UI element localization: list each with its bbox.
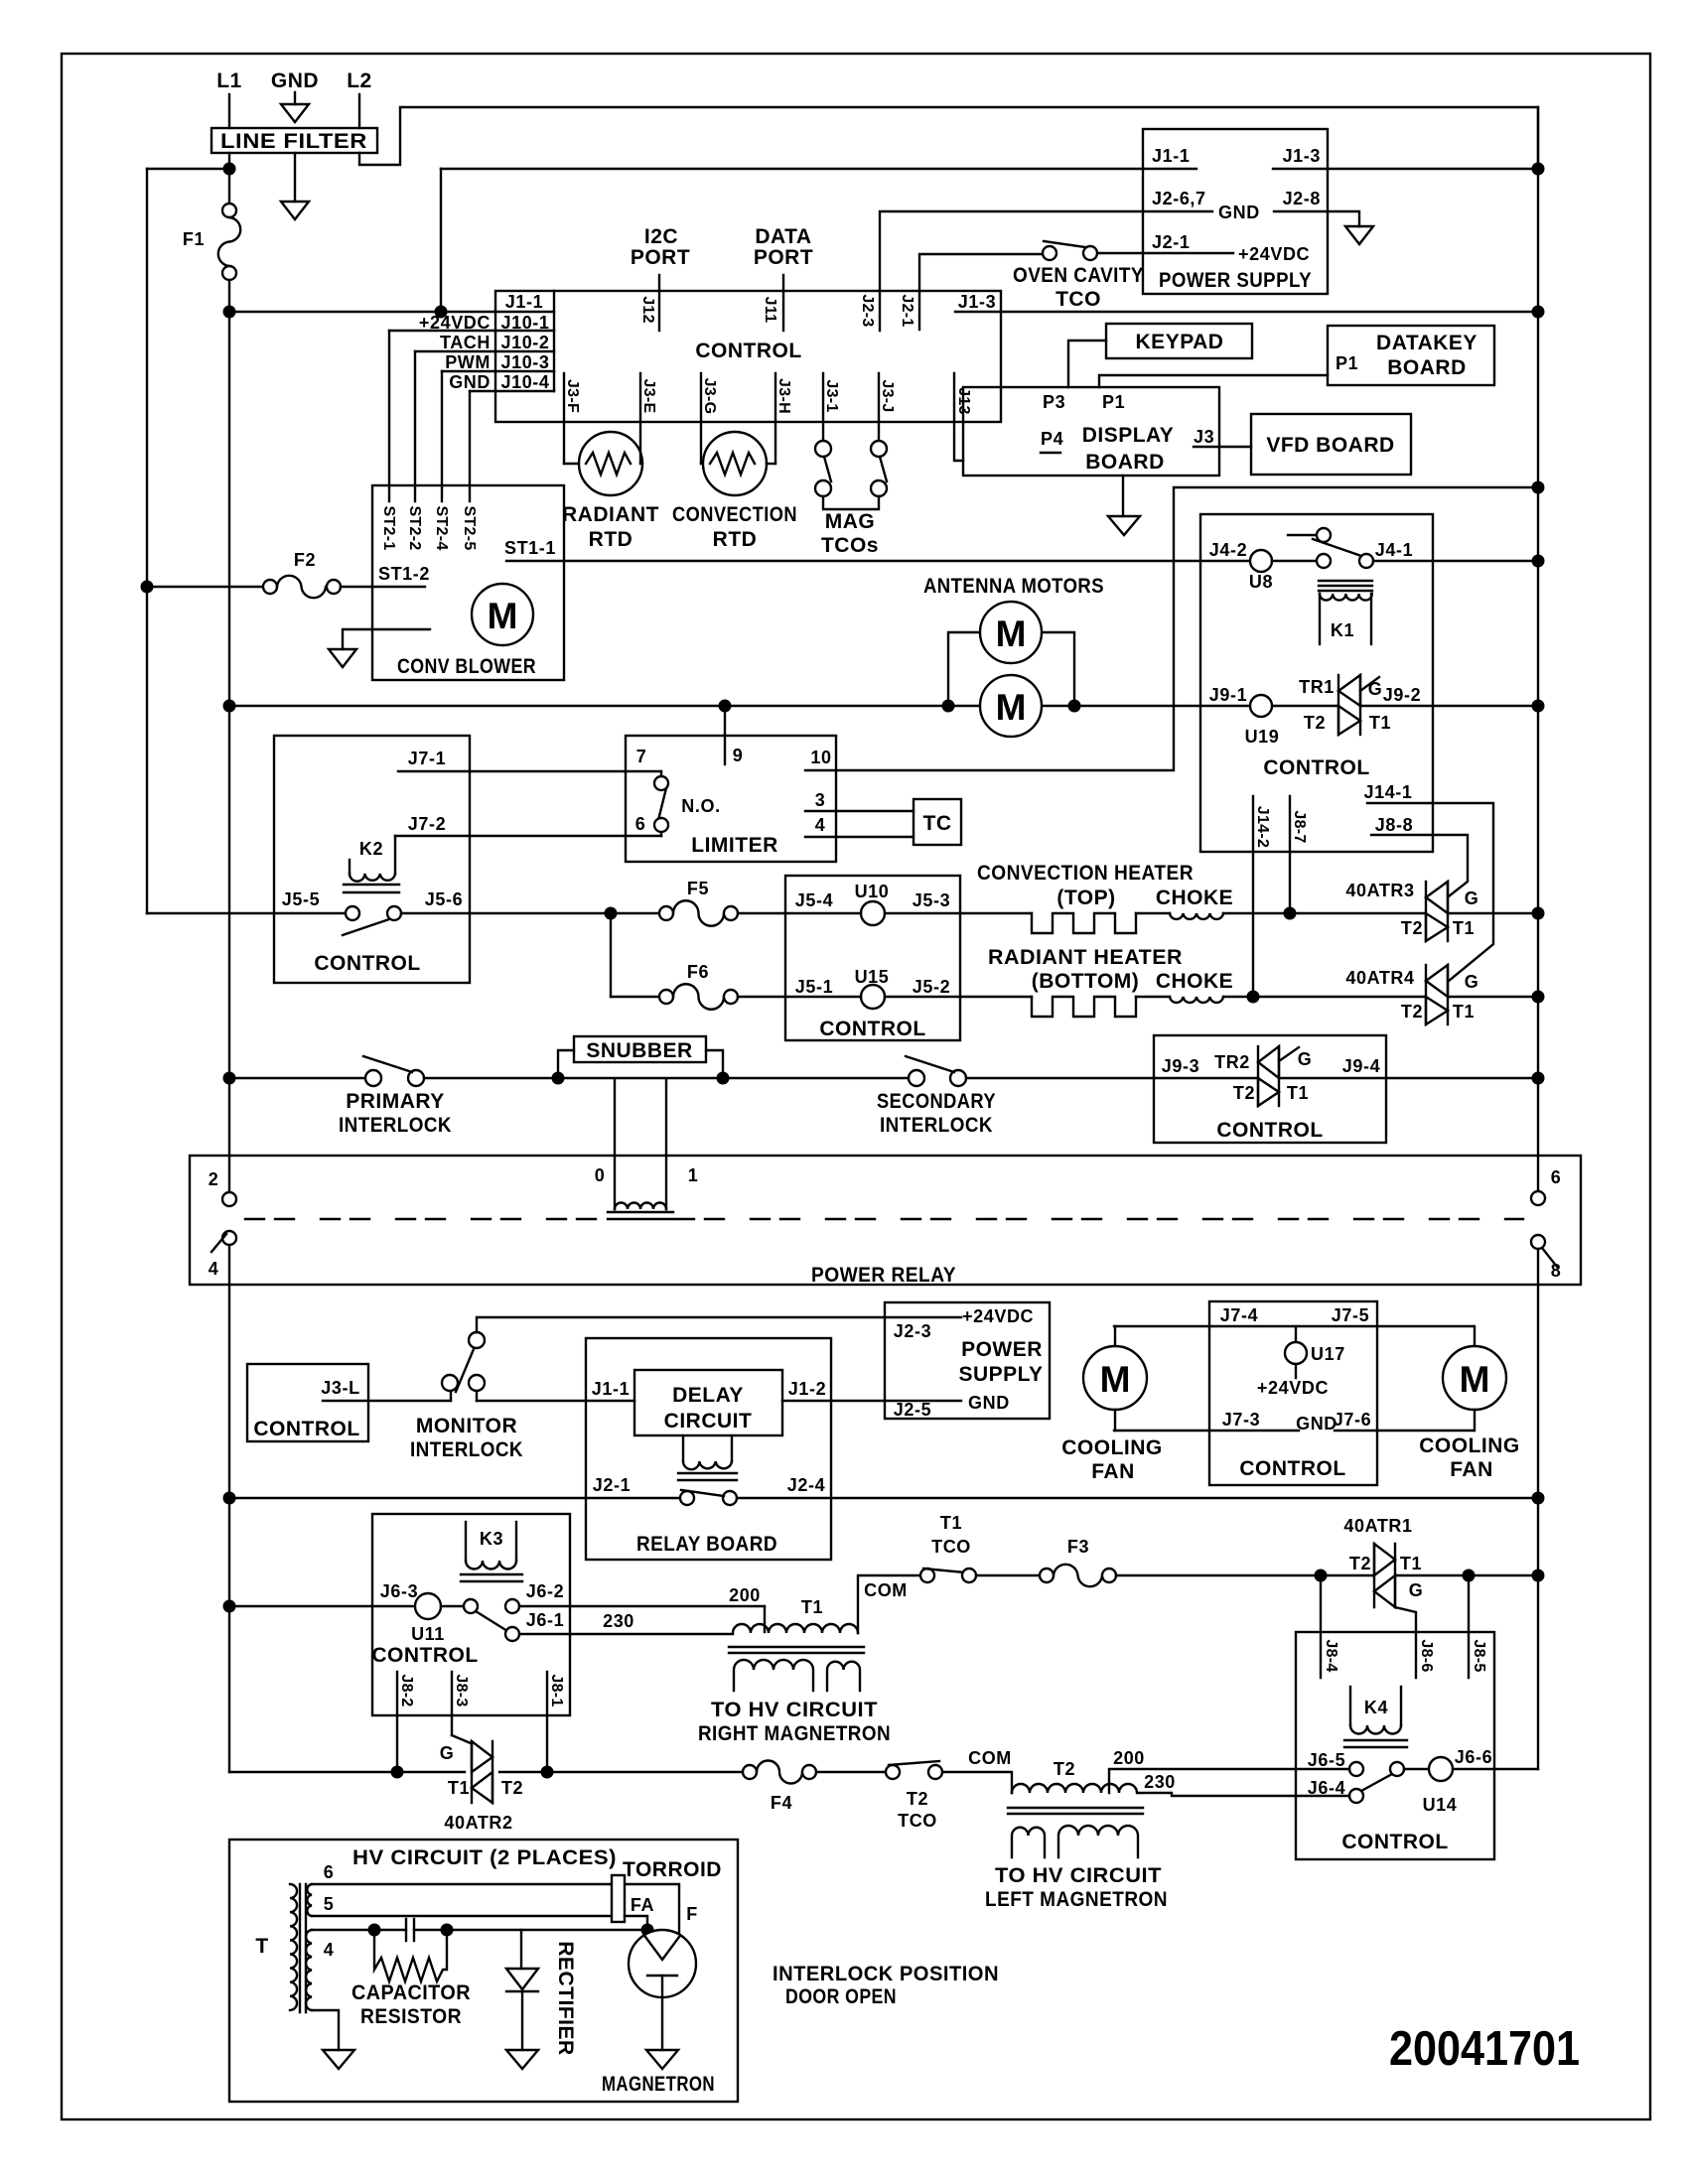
- wire T1 COM riser: [858, 1575, 920, 1633]
- fuse F1: [222, 204, 236, 217]
- wire pin 4 to TC: [805, 836, 914, 838]
- svg-text:J7-6: J7-6: [1334, 1410, 1371, 1430]
- svg-text:DELAY: DELAY: [672, 1384, 744, 1407]
- svg-text:MONITOR: MONITOR: [416, 1415, 517, 1437]
- wire J9-2 to right rail: [1360, 705, 1538, 707]
- fuse F5: [618, 912, 659, 914]
- svg-text:BOARD: BOARD: [1387, 356, 1467, 379]
- power supply board (middle): [885, 1302, 1050, 1419]
- node junction rail 40ATR1: [1532, 1570, 1545, 1582]
- svg-text:T2: T2: [907, 1789, 928, 1809]
- relay coil power relay: [614, 1079, 616, 1209]
- ground symbol transformer T: [312, 2010, 339, 2050]
- svg-text:M: M: [1460, 1359, 1490, 1400]
- svg-text:4: 4: [209, 1259, 219, 1279]
- svg-text:GND: GND: [1218, 203, 1260, 222]
- wire L2 route to top rail: [359, 107, 1538, 169]
- svg-text:J1-3: J1-3: [1283, 146, 1321, 166]
- svg-text:T1: T1: [1400, 1554, 1422, 1573]
- svg-text:CONTROL: CONTROL: [253, 1418, 359, 1440]
- svg-text:CAPACITOR: CAPACITOR: [352, 1981, 471, 2004]
- wire J7-3 row: [1114, 1430, 1299, 1432]
- pin J10-4: [442, 370, 554, 372]
- svg-text:CONVECTION: CONVECTION: [672, 503, 797, 526]
- pin J3-E: [639, 373, 641, 422]
- svg-text:J5-5: J5-5: [282, 889, 320, 909]
- node junction antenna row left: [223, 700, 236, 713]
- svg-text:T1: T1: [801, 1597, 823, 1617]
- wire J3-L to monitor interlock: [323, 1400, 451, 1402]
- svg-text:J2-5: J2-5: [894, 1400, 931, 1420]
- svg-text:SUPPLY: SUPPLY: [958, 1363, 1043, 1386]
- switch power relay right: [1531, 1191, 1545, 1205]
- svg-text:M: M: [488, 596, 518, 636]
- pin J8-7: [1289, 796, 1291, 913]
- svg-text:GND: GND: [271, 69, 319, 92]
- wire J7-6 row: [1335, 1430, 1474, 1432]
- svg-text:230: 230: [603, 1611, 634, 1631]
- pin J10-2: [389, 330, 554, 332]
- svg-text:SECONDARY: SECONDARY: [877, 1090, 996, 1113]
- svg-text:J3-F: J3-F: [564, 379, 581, 413]
- node junction FA: [641, 1924, 654, 1937]
- node junction rail conv heater: [1532, 907, 1545, 920]
- svg-text:10: 10: [810, 748, 831, 767]
- svg-text:ST1-1: ST1-1: [504, 538, 556, 558]
- U8 K1 control box: [1200, 514, 1433, 852]
- svg-text:LINE FILTER: LINE FILTER: [220, 130, 367, 153]
- svg-text:HV CIRCUIT (2 PLACES): HV CIRCUIT (2 PLACES): [352, 1846, 617, 1869]
- J3-L control box: [247, 1364, 368, 1441]
- svg-text:INTERLOCK POSITION: INTERLOCK POSITION: [773, 1963, 999, 1985]
- wire to J6-3: [229, 1605, 415, 1607]
- svg-text:DATA: DATA: [755, 225, 811, 248]
- wire U14 to rail: [1453, 1768, 1538, 1770]
- svg-text:8: 8: [1551, 1261, 1562, 1281]
- svg-text:P1: P1: [1336, 353, 1358, 373]
- wire J1-1 riser: [440, 169, 442, 312]
- svg-text:U8: U8: [1249, 572, 1273, 592]
- wire J8-4 drop: [1320, 1575, 1322, 1678]
- transformer T primary coil: [290, 1884, 297, 2010]
- wire J7-2 to limiter 6: [395, 835, 661, 837]
- wire 40ATR3 to rail: [1448, 912, 1538, 914]
- svg-text:M: M: [996, 614, 1027, 654]
- keypad board: [1106, 324, 1252, 358]
- choke coil convection: [1170, 913, 1223, 919]
- svg-text:J14-1: J14-1: [1363, 782, 1412, 802]
- svg-text:ANTENNA MOTORS: ANTENNA MOTORS: [923, 575, 1104, 598]
- wire ST2-5: [469, 391, 471, 501]
- svg-text:G: G: [1409, 1580, 1424, 1600]
- wire branch to F6: [610, 913, 612, 997]
- node junction x231 K3 row: [223, 1600, 236, 1613]
- ground symbol rectifier: [506, 2050, 538, 2069]
- svg-text:CIRCUIT: CIRCUIT: [664, 1410, 753, 1433]
- wire 40ATR1 gate to J8-6: [1395, 1607, 1416, 1678]
- svg-text:U17: U17: [1311, 1344, 1345, 1364]
- node junction +24VDC left: [223, 306, 236, 319]
- svg-text:DISPLAY: DISPLAY: [1082, 424, 1175, 447]
- svg-text:CONTROL: CONTROL: [314, 952, 420, 975]
- svg-text:T2: T2: [1349, 1554, 1371, 1573]
- svg-text:4: 4: [815, 815, 826, 835]
- svg-text:J2-4: J2-4: [787, 1475, 825, 1495]
- svg-text:(TOP): (TOP): [1056, 887, 1115, 909]
- wire F2 to ST1-2: [341, 586, 425, 588]
- pin J10-3: [415, 350, 554, 352]
- pin J8-1: [546, 1672, 548, 1772]
- wire J14-1 to 40ATR4 gate: [1367, 803, 1493, 981]
- node junction rail J4-1: [1532, 555, 1545, 568]
- svg-text:T1: T1: [1369, 713, 1391, 733]
- svg-text:P1: P1: [1102, 392, 1125, 412]
- K4 control box: [1296, 1632, 1494, 1859]
- svg-text:20041701: 20041701: [1389, 2022, 1580, 2076]
- triac 40ATR2: [471, 1741, 473, 1803]
- svg-text:J1-1: J1-1: [1152, 146, 1190, 166]
- pin J3-F: [563, 373, 565, 422]
- wire J8-3 to 40ATR2 gate: [452, 1735, 471, 1743]
- switch SECONDARY INTERLOCK: [909, 1070, 924, 1086]
- svg-text:J8-1: J8-1: [548, 1674, 565, 1706]
- svg-text:T2: T2: [1304, 713, 1326, 733]
- wire F4 to T2 TCO: [816, 1771, 886, 1773]
- node junction bridge left: [942, 700, 955, 713]
- svg-text:OVEN CAVITY: OVEN CAVITY: [1013, 264, 1144, 287]
- wire J3 to VFD: [1219, 446, 1251, 448]
- pin J2-1 wire to oven cavity TCO: [919, 254, 1043, 330]
- node junction cap left: [368, 1924, 381, 1937]
- switch OVEN CAVITY TCO: [1043, 246, 1056, 260]
- switch limiter: [654, 776, 668, 790]
- svg-text:GND: GND: [449, 372, 491, 392]
- svg-text:J3-H: J3-H: [775, 378, 792, 414]
- diode RECTIFIER: [520, 1930, 522, 1969]
- svg-text:TO HV CIRCUIT: TO HV CIRCUIT: [995, 1864, 1162, 1887]
- pin J10-1: [495, 311, 554, 313]
- svg-text:F3: F3: [1067, 1537, 1089, 1557]
- svg-text:CONTROL: CONTROL: [695, 340, 801, 362]
- svg-text:I2C: I2C: [644, 225, 678, 248]
- wire left branch: [147, 168, 229, 170]
- opto U8: [1250, 550, 1272, 572]
- svg-text:G: G: [440, 1743, 455, 1763]
- wire TCO to power supply J2-1: [1097, 252, 1233, 254]
- ground symbol J2-8: [1328, 211, 1359, 226]
- node junction J8-4: [1315, 1570, 1328, 1582]
- wire interlock to snubber: [424, 1077, 723, 1079]
- svg-text:5: 5: [324, 1894, 335, 1914]
- svg-text:J2-8: J2-8: [1283, 189, 1321, 208]
- svg-text:LIMITER: LIMITER: [691, 834, 778, 857]
- wire MAG TCO link: [823, 496, 879, 509]
- svg-text:INTERLOCK: INTERLOCK: [339, 1114, 452, 1137]
- svg-text:P3: P3: [1043, 392, 1065, 412]
- svg-text:J6-5: J6-5: [1308, 1750, 1345, 1770]
- svg-text:T2: T2: [501, 1778, 523, 1798]
- pin row bottom: [470, 390, 554, 392]
- svg-text:DATAKEY: DATAKEY: [1376, 332, 1477, 354]
- pin J8-3: [451, 1672, 453, 1735]
- wire pin 6 to magnetron F: [312, 1884, 679, 1933]
- TR2 control box: [1154, 1035, 1386, 1143]
- wire pin 10 to right control: [805, 487, 1538, 770]
- svg-text:TCO: TCO: [931, 1537, 971, 1557]
- svg-text:J4-2: J4-2: [1209, 540, 1247, 560]
- switch MAG TCO 2: [878, 422, 880, 441]
- wire J5-6 to F5 junction: [401, 912, 611, 914]
- fuse F6: [611, 996, 659, 998]
- svg-text:J3-G: J3-G: [701, 378, 718, 415]
- svg-text:J7-1: J7-1: [408, 749, 446, 768]
- svg-text:J14-2: J14-2: [1254, 806, 1271, 848]
- svg-text:N.O.: N.O.: [681, 796, 720, 816]
- svg-text:T2: T2: [1401, 1002, 1423, 1022]
- svg-text:PORT: PORT: [754, 246, 813, 269]
- wire U8 to relay contact: [1272, 560, 1317, 562]
- fuse F3: [1040, 1569, 1054, 1582]
- svg-text:J3: J3: [1194, 427, 1214, 447]
- delay circuit box: [634, 1370, 782, 1435]
- pin J3-1: [822, 373, 824, 422]
- svg-text:RIGHT MAGNETRON: RIGHT MAGNETRON: [698, 1722, 891, 1745]
- svg-text:4: 4: [324, 1940, 335, 1960]
- node junction J1-1 drop: [435, 306, 448, 319]
- svg-text:POWER SUPPLY: POWER SUPPLY: [1159, 269, 1312, 292]
- pin J13 wire to display board P4: [954, 373, 963, 461]
- svg-text:J2-3: J2-3: [894, 1321, 931, 1341]
- svg-text:K2: K2: [359, 839, 383, 859]
- wire 40ATR2 to F4: [499, 1771, 743, 1773]
- svg-text:J7-4: J7-4: [1220, 1305, 1258, 1325]
- pin J3-H: [774, 373, 776, 422]
- switch T2 TCO: [886, 1765, 900, 1779]
- svg-text:J8-8: J8-8: [1375, 815, 1413, 835]
- wire TR2 to rail: [1279, 1077, 1538, 1079]
- svg-text:T2: T2: [1054, 1759, 1075, 1779]
- pin J3-J: [878, 373, 880, 422]
- svg-text:J3-L: J3-L: [321, 1378, 359, 1398]
- wire to secondary interlock: [723, 1077, 909, 1079]
- svg-text:J1-1: J1-1: [505, 292, 543, 312]
- svg-text:CONTROL: CONTROL: [1216, 1119, 1323, 1142]
- wire delay row left: [229, 1497, 680, 1499]
- snubber S1: [558, 1050, 574, 1078]
- svg-text:POWER: POWER: [961, 1338, 1043, 1361]
- svg-text:FA: FA: [631, 1895, 654, 1915]
- wire x148 rail to K2 switch: [147, 912, 346, 914]
- opto U17: [1295, 1326, 1297, 1342]
- svg-text:TO HV CIRCUIT: TO HV CIRCUIT: [711, 1699, 878, 1721]
- svg-text:J10-2: J10-2: [500, 333, 549, 352]
- svg-text:J2-6,7: J2-6,7: [1152, 189, 1206, 208]
- svg-text:6: 6: [635, 814, 646, 834]
- wire antenna motor row: [229, 705, 1338, 707]
- relay board box: [586, 1338, 831, 1560]
- thermocouple TC: [914, 799, 961, 845]
- power relay box: [190, 1156, 1581, 1285]
- thermistor RADIANT RTD: [563, 422, 565, 464]
- transformer T secondary lower: [306, 1930, 312, 2010]
- wire J1-2 to power supply J2-5: [782, 1400, 961, 1402]
- motor M cooling fan left: [1114, 1326, 1116, 1347]
- pin J8-2: [396, 1672, 398, 1772]
- svg-text:U19: U19: [1245, 727, 1280, 747]
- svg-text:L2: L2: [347, 69, 372, 92]
- svg-text:ST2-5: ST2-5: [461, 505, 478, 550]
- line filter LF1: [211, 128, 377, 153]
- node junction right rail J1-3: [1532, 306, 1545, 319]
- svg-text:CONV BLOWER: CONV BLOWER: [397, 655, 536, 678]
- cooling fan control box: [1209, 1301, 1377, 1485]
- wire J4-1 to right rail: [1373, 560, 1538, 562]
- svg-text:G: G: [1298, 1049, 1313, 1069]
- relay coil K1: [1319, 580, 1372, 582]
- transformer T2 secondary: [1012, 1828, 1045, 1857]
- svg-text:F5: F5: [687, 879, 709, 898]
- switch MONITOR INTERLOCK: [450, 1391, 452, 1401]
- wire ST2-1: [388, 331, 390, 501]
- svg-text:0: 0: [595, 1165, 606, 1185]
- svg-text:3: 3: [815, 790, 826, 810]
- svg-text:INTERLOCK: INTERLOCK: [880, 1114, 993, 1137]
- wire F1 to +24VDC row: [228, 280, 230, 312]
- ground symbol under line filter: [294, 153, 296, 202]
- fuse F2: [141, 581, 154, 594]
- conv blower box: [372, 485, 564, 680]
- wire to power supply J1-1: [441, 168, 1143, 170]
- svg-text:F4: F4: [771, 1793, 792, 1813]
- svg-text:ST2-1: ST2-1: [380, 505, 397, 550]
- switch MAG TCO 1: [822, 422, 824, 441]
- node junction right rail top: [1532, 163, 1545, 176]
- svg-text:J9-4: J9-4: [1342, 1056, 1380, 1076]
- node junction right rail pin10: [1532, 481, 1545, 494]
- wire J5-4 row: [785, 912, 861, 914]
- wire choke to 40ATR3: [1223, 912, 1426, 914]
- wire delay row right to rail: [737, 1497, 1538, 1499]
- svg-text:230: 230: [1144, 1772, 1176, 1792]
- svg-text:RELAY BOARD: RELAY BOARD: [636, 1533, 777, 1556]
- svg-text:J11: J11: [762, 297, 778, 324]
- wire J6-2 to T1 200 tap: [519, 1605, 765, 1607]
- wire J1-3 to right rail: [1328, 168, 1538, 170]
- ground symbol magnetron: [646, 2050, 678, 2069]
- svg-text:J6-1: J6-1: [526, 1610, 564, 1630]
- svg-text:LEFT MAGNETRON: LEFT MAGNETRON: [985, 1888, 1168, 1911]
- svg-text:J8-3: J8-3: [453, 1674, 470, 1706]
- wire COM to T2 transformer: [942, 1772, 1012, 1793]
- capacitor C: [405, 1919, 407, 1941]
- control board box: [495, 291, 1001, 422]
- switch K2 contact: [346, 906, 359, 920]
- svg-text:J5-3: J5-3: [913, 890, 950, 910]
- svg-text:P4: P4: [1041, 429, 1063, 449]
- svg-text:40ATR3: 40ATR3: [1345, 881, 1414, 900]
- svg-text:J3-1: J3-1: [823, 379, 840, 412]
- pin J14-2: [1252, 796, 1254, 997]
- node junction J8-2: [391, 1766, 404, 1779]
- choke coil radiant: [1170, 997, 1223, 1003]
- svg-text:FAN: FAN: [1450, 1458, 1493, 1481]
- svg-text:SNUBBER: SNUBBER: [586, 1039, 692, 1062]
- svg-text:200: 200: [729, 1585, 761, 1605]
- ground symbol top: [294, 92, 296, 104]
- svg-text:40ATR4: 40ATR4: [1345, 968, 1414, 988]
- U10 U15 control box: [785, 876, 960, 1040]
- svg-text:TCOs: TCOs: [821, 534, 879, 557]
- svg-text:40ATR2: 40ATR2: [444, 1813, 512, 1833]
- wire J7-1 to limiter 7: [398, 770, 661, 772]
- wire J6-1 to T1 230: [519, 1633, 733, 1635]
- svg-text:J10-3: J10-3: [500, 352, 549, 372]
- node junction snubber right: [717, 1072, 730, 1085]
- wire T2 230 to J6-4: [1139, 1793, 1349, 1796]
- svg-text:J1-1: J1-1: [592, 1379, 630, 1399]
- svg-text:T1: T1: [1453, 918, 1475, 938]
- svg-text:CONTROL: CONTROL: [1263, 756, 1369, 779]
- wire choke to 40ATR4: [1223, 996, 1426, 998]
- opto U19: [1250, 695, 1272, 717]
- svg-text:TACH: TACH: [440, 333, 491, 352]
- svg-text:J6-6: J6-6: [1455, 1747, 1492, 1767]
- svg-text:J8-5: J8-5: [1471, 1639, 1487, 1672]
- wire L2 to line filter: [358, 94, 360, 128]
- svg-text:+24VDC: +24VDC: [1257, 1378, 1329, 1398]
- svg-text:J2-1: J2-1: [593, 1475, 631, 1495]
- svg-text:J8-6: J8-6: [1418, 1639, 1435, 1672]
- wire J8-5 drop: [1468, 1575, 1470, 1678]
- svg-text:CONTROL: CONTROL: [819, 1018, 925, 1040]
- svg-text:POWER RELAY: POWER RELAY: [811, 1264, 956, 1287]
- wire datakey P1 to display P1: [1099, 375, 1328, 387]
- svg-text:J9-2: J9-2: [1383, 685, 1421, 705]
- svg-text:J9-3: J9-3: [1162, 1056, 1199, 1076]
- wire ST2-4: [441, 371, 443, 501]
- wire interlock row left: [229, 1077, 366, 1079]
- svg-text:CONVECTION HEATER: CONVECTION HEATER: [977, 862, 1194, 885]
- svg-text:TORROID: TORROID: [623, 1858, 722, 1881]
- svg-text:J8-7: J8-7: [1291, 810, 1308, 843]
- opto U11: [415, 1593, 441, 1619]
- svg-text:CONTROL: CONTROL: [1341, 1831, 1448, 1853]
- node junction primary interlock left: [223, 1072, 236, 1085]
- svg-text:J9-1: J9-1: [1209, 685, 1247, 705]
- svg-text:J7-5: J7-5: [1332, 1305, 1369, 1325]
- node junction J8-7 heater: [1284, 907, 1297, 920]
- motor M antenna upper: [980, 602, 1042, 663]
- svg-text:2: 2: [209, 1169, 219, 1189]
- svg-text:U10: U10: [855, 882, 890, 901]
- svg-text:MAGNETRON: MAGNETRON: [602, 2073, 715, 2096]
- transformer T1 secondary: [734, 1660, 813, 1691]
- wire 40ATR1 to rail: [1395, 1574, 1538, 1576]
- svg-text:200: 200: [1113, 1748, 1145, 1768]
- svg-text:COM: COM: [968, 1748, 1012, 1768]
- svg-text:TC: TC: [923, 812, 952, 835]
- svg-text:CONTROL: CONTROL: [371, 1644, 478, 1667]
- svg-text:RESISTOR: RESISTOR: [360, 2005, 462, 2028]
- svg-text:COM: COM: [864, 1580, 908, 1600]
- VFD board: [1251, 414, 1411, 475]
- svg-text:J12: J12: [639, 296, 656, 324]
- HV circuit box: [229, 1840, 738, 2102]
- right rail x1549 upper: [1537, 107, 1539, 1191]
- right rail lower: [1537, 1249, 1539, 1769]
- svg-text:J5-4: J5-4: [795, 890, 833, 910]
- svg-text:J2-1: J2-1: [1152, 232, 1190, 252]
